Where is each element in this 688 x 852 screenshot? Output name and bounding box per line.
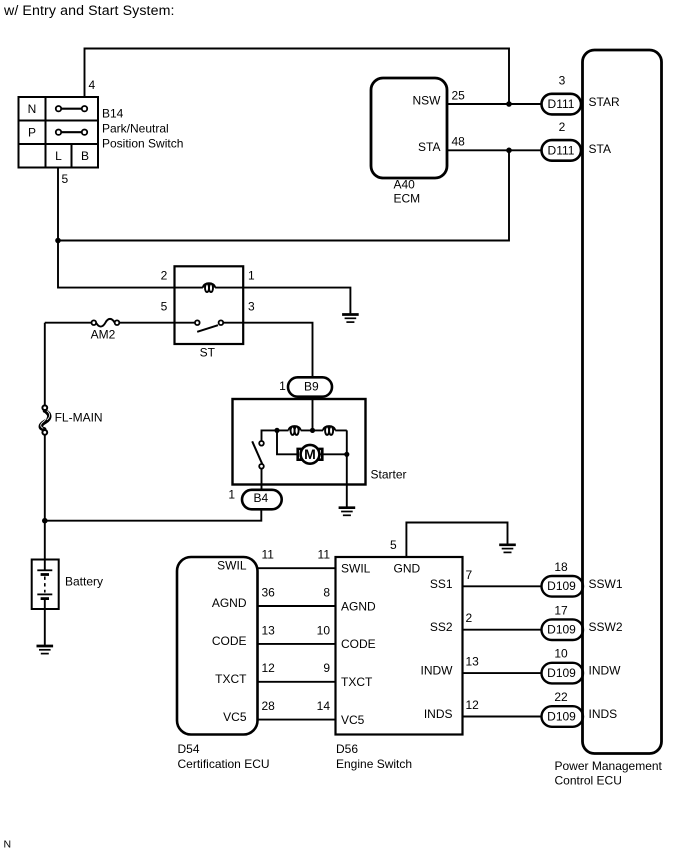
svg-text:B14: B14 — [102, 107, 124, 121]
svg-text:VC5: VC5 — [223, 710, 247, 724]
svg-text:INDS: INDS — [424, 707, 453, 721]
svg-text:11: 11 — [262, 548, 275, 562]
certification ECU D54 — [177, 557, 258, 735]
svg-text:13: 13 — [262, 623, 276, 637]
wire: STA pin 48 to D111 — [447, 149, 542, 151]
svg-text:INDW: INDW — [421, 664, 454, 678]
connector D109 INDW — [542, 663, 584, 684]
svg-text:9: 9 — [323, 661, 330, 675]
wire: starter switch to B4 — [261, 469, 263, 490]
power management control ECU label — [555, 759, 663, 788]
connector B9 — [288, 377, 332, 396]
starter motor M1 — [298, 445, 323, 464]
connector B4 — [242, 490, 282, 510]
svg-text:SWIL: SWIL — [217, 558, 247, 572]
svg-text:1: 1 — [228, 487, 235, 501]
engine switch D56 — [336, 557, 463, 735]
svg-text:10: 10 — [554, 647, 568, 661]
junction node battery feed — [42, 518, 48, 524]
svg-text:INDW: INDW — [589, 664, 622, 678]
svg-text:D111: D111 — [548, 97, 575, 111]
power management control ECU box — [583, 50, 662, 754]
svg-text:25: 25 — [452, 88, 466, 102]
svg-text:SS1: SS1 — [430, 577, 453, 591]
park/neutral position switch B14 — [19, 97, 99, 168]
fusible link FL-MAIN — [41, 323, 50, 560]
B14 contact row P — [56, 130, 87, 135]
svg-text:GND: GND — [394, 562, 421, 576]
connector D109 SSW2 — [542, 619, 584, 640]
connector D111 STA — [542, 140, 582, 161]
svg-text:14: 14 — [317, 699, 331, 713]
wire: ST pin 3 down to B9 — [243, 323, 313, 378]
svg-text:5: 5 — [161, 300, 168, 314]
wire: SS1 to D109 — [463, 585, 542, 587]
D54 label — [178, 742, 270, 771]
svg-text:AGND: AGND — [341, 599, 376, 613]
ground (starter) — [339, 508, 356, 516]
svg-text:N: N — [4, 839, 12, 851]
wire: B14 pin 4 up and over to NSW node — [85, 49, 510, 105]
svg-text:Starter: Starter — [371, 468, 407, 482]
wire: NSW pin 25 to D111 — [447, 103, 542, 105]
svg-text:CODE: CODE — [341, 637, 376, 651]
svg-text:2: 2 — [466, 611, 473, 625]
svg-text:w/ Entry and Start System:: w/ Entry and Start System: — [3, 3, 175, 19]
junction node below B14 — [55, 238, 61, 244]
svg-text:D109: D109 — [547, 709, 576, 723]
ground (battery) — [37, 646, 54, 654]
svg-text:1: 1 — [248, 268, 255, 282]
wire: GND to ground — [406, 523, 507, 558]
wire: B14 pin 5 down to ST pin 2 — [58, 168, 175, 288]
wire: B9 to starter coil node — [312, 397, 314, 431]
B14 contact row N — [56, 106, 87, 111]
svg-text:Control ECU: Control ECU — [555, 774, 622, 788]
svg-text:TXCT: TXCT — [215, 672, 247, 686]
svg-text:STA: STA — [589, 142, 611, 156]
svg-text:INDS: INDS — [589, 707, 618, 721]
svg-text:13: 13 — [466, 655, 480, 669]
svg-text:SSW1: SSW1 — [589, 577, 623, 591]
svg-text:SS2: SS2 — [430, 620, 453, 634]
wire: starter right vertical to ground — [346, 430, 348, 506]
connector D109 INDS — [542, 706, 584, 727]
svg-text:2: 2 — [559, 120, 566, 134]
battery — [32, 560, 59, 645]
wire: TXCT D54-D56 — [258, 681, 336, 683]
svg-text:AGND: AGND — [212, 596, 247, 610]
wire: CODE D54-D56 — [258, 643, 336, 645]
svg-text:ECM: ECM — [394, 192, 421, 206]
svg-text:4: 4 — [89, 78, 96, 92]
svg-text:8: 8 — [323, 585, 330, 599]
wire: VC5 D54-D56 — [258, 719, 336, 721]
svg-text:N: N — [28, 102, 37, 116]
wire: INDS to D109 — [463, 716, 542, 718]
starter coil right — [323, 426, 335, 435]
svg-text:Engine Switch: Engine Switch — [336, 757, 412, 771]
B14 side label — [102, 107, 183, 151]
starter coil left — [289, 426, 301, 435]
svg-text:12: 12 — [466, 698, 480, 712]
svg-text:D56: D56 — [336, 742, 358, 756]
svg-text:Park/Neutral: Park/Neutral — [102, 122, 169, 136]
wire: INDW to D109 — [463, 672, 542, 674]
junction node motor right — [344, 452, 349, 457]
svg-text:D109: D109 — [547, 579, 576, 593]
svg-text:L: L — [55, 149, 62, 163]
svg-text:B: B — [81, 149, 89, 163]
wire: coil node to starter switch — [262, 430, 278, 441]
svg-text:Certification ECU: Certification ECU — [178, 757, 270, 771]
svg-text:SWIL: SWIL — [341, 562, 371, 576]
starter coil wire — [277, 429, 347, 431]
svg-text:1: 1 — [279, 379, 286, 393]
svg-text:28: 28 — [262, 699, 276, 713]
svg-text:2: 2 — [161, 268, 168, 282]
relay ST coil — [175, 283, 244, 292]
relay ST — [175, 266, 244, 344]
svg-text:CODE: CODE — [212, 634, 247, 648]
svg-text:10: 10 — [317, 623, 331, 637]
relay ST switch — [175, 320, 244, 331]
svg-text:AM2: AM2 — [91, 327, 116, 341]
svg-text:3: 3 — [559, 74, 566, 88]
connector D111 STAR — [542, 94, 582, 115]
junction node on NSW wire — [506, 101, 512, 107]
wire: SWIL D54-D56 — [258, 567, 336, 569]
svg-text:SSW2: SSW2 — [589, 620, 623, 634]
svg-text:A40: A40 — [394, 178, 416, 192]
ECM A40 — [371, 78, 447, 178]
svg-text:Power Management: Power Management — [555, 759, 663, 773]
svg-text:18: 18 — [554, 560, 568, 574]
wire: battery node to B4 — [45, 509, 261, 521]
starter switch — [252, 441, 264, 469]
svg-text:D111: D111 — [548, 144, 575, 158]
svg-text:B4: B4 — [253, 491, 268, 505]
svg-text:VC5: VC5 — [341, 713, 365, 727]
wire: AGND D54-D56 — [258, 605, 336, 607]
svg-text:FL-MAIN: FL-MAIN — [55, 411, 103, 425]
D56 label — [336, 742, 412, 771]
svg-text:P: P — [28, 126, 36, 140]
connector D109 SSW1 — [542, 576, 584, 597]
svg-text:B9: B9 — [304, 379, 319, 393]
wire: coil node down to motor left — [277, 430, 297, 454]
ground (engine switch GND) — [499, 545, 516, 553]
svg-text:22: 22 — [554, 690, 568, 704]
svg-text:STA: STA — [418, 140, 440, 154]
svg-text:36: 36 — [262, 585, 276, 599]
svg-text:Battery: Battery — [65, 574, 103, 588]
wire: STA node down and left to B14 pin 5 node — [58, 150, 509, 240]
svg-text:D109: D109 — [547, 623, 576, 637]
svg-text:D54: D54 — [178, 742, 200, 756]
junction node starter coil left — [274, 428, 279, 433]
junction node on STA wire — [506, 148, 512, 154]
svg-text:5: 5 — [390, 538, 397, 552]
svg-text:NSW: NSW — [413, 93, 442, 107]
fuse AM2 — [45, 319, 175, 327]
svg-text:3: 3 — [248, 300, 255, 314]
svg-text:12: 12 — [262, 661, 276, 675]
svg-text:ST: ST — [200, 346, 216, 360]
starter box — [233, 399, 366, 485]
wire: ST pin 1 to ground — [243, 288, 350, 314]
A40 ECM label — [394, 178, 421, 206]
svg-text:7: 7 — [466, 568, 473, 582]
svg-text:D109: D109 — [547, 666, 576, 680]
svg-text:48: 48 — [452, 135, 466, 149]
wire: motor right to vertical — [319, 453, 346, 455]
svg-text:STAR: STAR — [589, 95, 620, 109]
svg-text:17: 17 — [554, 603, 568, 617]
ground (right of ST) — [342, 315, 359, 323]
wire: SS2 to D109 — [463, 629, 542, 631]
svg-text:11: 11 — [318, 548, 331, 562]
svg-text:5: 5 — [62, 172, 69, 186]
junction node under B9 — [310, 428, 315, 433]
svg-text:M: M — [304, 446, 316, 462]
svg-text:TXCT: TXCT — [341, 675, 373, 689]
svg-text:Position Switch: Position Switch — [102, 137, 183, 151]
